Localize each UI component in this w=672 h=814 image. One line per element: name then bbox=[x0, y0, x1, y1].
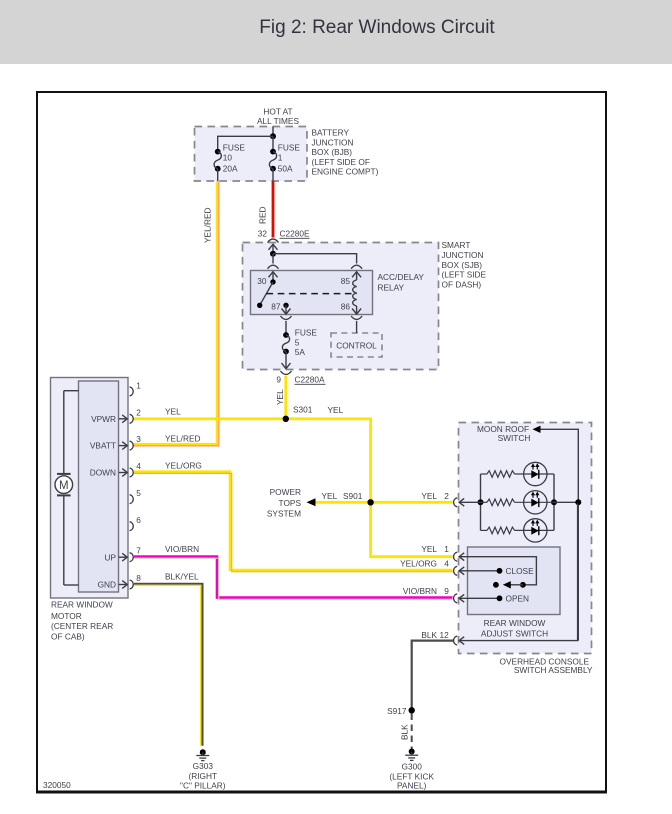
arrow into SJB at pin 32 bbox=[269, 244, 278, 254]
svg-text:YEL/RED: YEL/RED bbox=[165, 434, 201, 444]
splice S917 bbox=[387, 706, 415, 716]
svg-text:87: 87 bbox=[271, 301, 281, 311]
wire YEL/ORG from motor pin 4 to switch pin 4 (yellow with orange stripe) bbox=[134, 472, 453, 572]
wire fuse 5 to C2280A with arrow bbox=[282, 352, 291, 369]
svg-text:86: 86 bbox=[341, 301, 351, 311]
relay pin 85 connector arc bbox=[351, 265, 362, 269]
node HOT AT ALL TIMES bbox=[257, 107, 299, 127]
svg-text:ACC/DELAY: ACC/DELAY bbox=[378, 272, 425, 282]
svg-text:BLK: BLK bbox=[421, 630, 437, 640]
wire YEL from S301 to motor pin 2 bbox=[134, 417, 286, 420]
svg-text:BATTERY: BATTERY bbox=[312, 128, 350, 138]
adjust switch common blade bbox=[493, 581, 526, 588]
LED lamp bus (left) bbox=[478, 474, 484, 530]
svg-text:YEL: YEL bbox=[328, 405, 344, 415]
svg-text:HOT AT: HOT AT bbox=[263, 107, 292, 117]
splice S301 bbox=[283, 405, 313, 422]
svg-text:UP: UP bbox=[104, 552, 116, 562]
relay pin 30 arrow and switch blade bbox=[257, 272, 278, 308]
wire BLK/YEL from motor pin 8 to ground G303 (dark with yellow stripe) bbox=[134, 584, 203, 746]
fuse F10 (FUSE 10 20A) bbox=[214, 143, 245, 182]
svg-text:POWER: POWER bbox=[270, 487, 301, 497]
svg-text:CLOSE: CLOSE bbox=[506, 566, 535, 576]
svg-text:VBATT: VBATT bbox=[90, 441, 116, 451]
diagram frame bbox=[36, 92, 607, 792]
svg-text:SWITCH ASSEMBLY: SWITCH ASSEMBLY bbox=[514, 665, 593, 675]
svg-text:4: 4 bbox=[444, 558, 449, 568]
svg-text:CONTROL: CONTROL bbox=[336, 340, 377, 350]
relay pin 86 lower connector arc bbox=[351, 316, 362, 320]
LED D2 (middle row) bbox=[524, 491, 547, 514]
wire YEL from C2280A to splice S301 bbox=[284, 376, 287, 419]
svg-text:YEL: YEL bbox=[421, 491, 437, 501]
svg-text:G300: G300 bbox=[402, 761, 423, 771]
power tops system arrow (filled) bbox=[307, 498, 316, 506]
svg-text:BLK: BLK bbox=[400, 724, 410, 740]
svg-text:320050: 320050 bbox=[43, 780, 71, 790]
SJB label bbox=[442, 240, 487, 289]
battery junction box BJB (dashed box) bbox=[195, 127, 308, 182]
svg-text:C2280A: C2280A bbox=[295, 374, 325, 384]
svg-text:ALL TIMES: ALL TIMES bbox=[257, 116, 299, 126]
switch pin 2 connector arc and arrow bbox=[421, 491, 480, 507]
svg-text:RED: RED bbox=[258, 206, 268, 224]
wire label YEL/RED (vertical) bbox=[203, 207, 213, 243]
relay mechanical linkage (dashed) bbox=[267, 293, 357, 295]
motor pin 6 connector arc bbox=[130, 515, 142, 531]
svg-text:DOWN: DOWN bbox=[90, 468, 116, 478]
relay box U1 ACC/DELAY RELAY bbox=[251, 271, 425, 315]
svg-text:7: 7 bbox=[136, 546, 141, 556]
svg-text:OF DASH): OF DASH) bbox=[442, 280, 482, 290]
svg-text:1: 1 bbox=[136, 380, 141, 390]
svg-text:32: 32 bbox=[258, 228, 268, 238]
svg-text:9: 9 bbox=[444, 586, 449, 596]
svg-text:1: 1 bbox=[444, 544, 449, 554]
svg-text:TOPS: TOPS bbox=[279, 498, 302, 508]
svg-text:YEL: YEL bbox=[421, 544, 437, 554]
svg-text:RELAY: RELAY bbox=[378, 282, 405, 292]
svg-text:YEL/ORG: YEL/ORG bbox=[165, 460, 202, 470]
rear window adjust switch box bbox=[468, 547, 561, 615]
rear window motor box (inner connector) bbox=[79, 381, 119, 592]
svg-text:REAR WINDOW: REAR WINDOW bbox=[484, 618, 546, 628]
wire YEL/RED from fuse 10 to motor pin 3 (yellow with red stripe) bbox=[134, 181, 219, 446]
svg-text:5: 5 bbox=[136, 488, 141, 498]
svg-text:6: 6 bbox=[136, 515, 141, 525]
svg-text:REAR WINDOW: REAR WINDOW bbox=[51, 599, 113, 609]
svg-text:SWITCH: SWITCH bbox=[498, 433, 531, 443]
svg-text:VIO/BRN: VIO/BRN bbox=[165, 544, 199, 554]
svg-text:ENGINE COMPT): ENGINE COMPT) bbox=[312, 167, 379, 177]
power tops system label bbox=[267, 487, 302, 518]
adjust switch CLOSE contact bbox=[400, 558, 534, 576]
svg-text:MOTOR: MOTOR bbox=[51, 611, 82, 621]
motor pin 3 VBATT bbox=[90, 434, 201, 451]
svg-text:G303: G303 bbox=[193, 761, 214, 771]
svg-text:2: 2 bbox=[136, 407, 141, 417]
motor pin 7 UP bbox=[104, 544, 199, 562]
motor pin 4 DOWN bbox=[90, 460, 202, 477]
svg-text:YEL: YEL bbox=[165, 407, 181, 417]
splice S901 bbox=[343, 491, 374, 505]
svg-text:8: 8 bbox=[136, 573, 141, 583]
moon roof switch label bbox=[477, 424, 530, 443]
adjust switch caption bbox=[481, 618, 548, 638]
svg-text:(RIGHT: (RIGHT bbox=[189, 771, 218, 781]
wire label BLK (vertical) bbox=[400, 724, 410, 740]
svg-text:SMART: SMART bbox=[442, 240, 471, 250]
fuse F5 (FUSE 5 5A) bbox=[282, 328, 317, 357]
wire label YEL left of S901 bbox=[322, 491, 338, 501]
svg-text:JUNCTION: JUNCTION bbox=[442, 250, 484, 260]
LED D1 (top row) bbox=[524, 462, 547, 485]
header bar bbox=[0, 0, 672, 64]
svg-text:12: 12 bbox=[440, 630, 450, 640]
svg-text:YEL: YEL bbox=[322, 491, 338, 501]
motor pin 2 VPWR bbox=[91, 407, 181, 424]
ground G303 bbox=[180, 749, 226, 790]
wire feed into BJB from hot at all times bbox=[218, 127, 276, 152]
wire BLK from switch pin 12 to splice S917 bbox=[412, 641, 454, 711]
wire RED from fuse 1 to C2280E bbox=[272, 181, 275, 238]
wire coil to CONTROL box bbox=[356, 321, 358, 333]
svg-text:S917: S917 bbox=[387, 706, 407, 716]
svg-text:M: M bbox=[59, 480, 69, 492]
LED D3 (bottom row) bbox=[524, 519, 547, 542]
junction node in SJB bbox=[270, 251, 357, 264]
svg-text:30: 30 bbox=[257, 276, 267, 286]
svg-text:(LEFT SIDE OF: (LEFT SIDE OF bbox=[312, 157, 370, 167]
wire label YEL right of S301 bbox=[328, 405, 344, 415]
connector C2280E pin 32 bbox=[258, 228, 310, 242]
svg-text:OPEN: OPEN bbox=[506, 594, 530, 604]
svg-text:BLK/YEL: BLK/YEL bbox=[165, 571, 199, 581]
motor caption bbox=[51, 599, 113, 641]
wire label YEL (vertical, below C2280A) bbox=[275, 389, 285, 405]
svg-text:OF CAB): OF CAB) bbox=[51, 631, 85, 641]
motor pin 8 GND bbox=[98, 571, 199, 589]
wire label RED (vertical) bbox=[258, 206, 268, 224]
title bbox=[0, 17, 672, 39]
svg-text:20A: 20A bbox=[223, 163, 238, 173]
svg-text:(CENTER REAR: (CENTER REAR bbox=[51, 621, 113, 631]
wire YEL from S901 to power tops arrow bbox=[315, 501, 371, 504]
CONTROL box (dashed) bbox=[331, 333, 382, 357]
svg-text:85: 85 bbox=[341, 276, 351, 286]
wire BLK dashed from S917 to ground G300 bbox=[411, 714, 413, 750]
rear window motor box (outer) bbox=[51, 378, 129, 599]
switch pin 12 connector arc and ground return wire bbox=[421, 504, 577, 646]
svg-text:10: 10 bbox=[223, 152, 233, 162]
svg-text:JUNCTION: JUNCTION bbox=[312, 137, 354, 147]
relay pin 87 lower connector arc bbox=[281, 316, 292, 320]
svg-text:C2280E: C2280E bbox=[280, 228, 310, 238]
fuse F1 (FUSE 1 50A) bbox=[269, 143, 300, 182]
svg-text:3: 3 bbox=[136, 434, 141, 444]
svg-text:FUSE: FUSE bbox=[295, 328, 318, 338]
wire YEL from S901 to switch pin 1 bbox=[371, 502, 453, 556]
motor pin 1 connector arc bbox=[130, 380, 142, 396]
svg-text:9: 9 bbox=[276, 374, 281, 384]
switch pin 1 connector arc and arrow to common bbox=[421, 544, 536, 585]
svg-text:VPWR: VPWR bbox=[91, 414, 116, 424]
resistor R1 (top row) bbox=[481, 471, 555, 478]
wire pin 87 to fuse 5 bbox=[285, 321, 287, 335]
svg-text:ADJUST SWITCH: ADJUST SWITCH bbox=[481, 628, 548, 638]
wire YEL from S301 to S901 bbox=[286, 419, 371, 503]
relay pin 87 contact bbox=[271, 301, 290, 314]
svg-text:"C" PILLAR): "C" PILLAR) bbox=[180, 781, 226, 791]
connector C2280A pin 9 bbox=[276, 371, 325, 384]
motor M1 symbol bbox=[55, 391, 79, 585]
svg-text:4: 4 bbox=[136, 461, 141, 471]
wire VIO/BRN from motor pin 7 to switch pin 9 (magenta with brown stripe) bbox=[134, 557, 453, 600]
svg-text:SYSTEM: SYSTEM bbox=[267, 509, 301, 519]
LED lamp bus (right) bbox=[551, 474, 581, 530]
svg-text:FUSE: FUSE bbox=[278, 143, 301, 153]
ground G300 bbox=[389, 749, 434, 791]
resistor R2 (middle row) bbox=[481, 499, 555, 506]
smart junction box SJB (dashed box) bbox=[243, 243, 439, 370]
svg-text:5A: 5A bbox=[295, 347, 306, 357]
svg-text:S301: S301 bbox=[293, 405, 313, 415]
svg-text:YEL/ORG: YEL/ORG bbox=[400, 558, 437, 568]
adjust switch OPEN contact bbox=[403, 586, 529, 604]
overhead console caption bbox=[500, 656, 593, 675]
svg-text:PANEL): PANEL) bbox=[397, 781, 427, 791]
BJB label bbox=[312, 128, 379, 177]
relay coil 85-86 bbox=[341, 272, 361, 314]
overhead console switch assembly (dashed box) bbox=[459, 423, 592, 654]
svg-text:50A: 50A bbox=[278, 163, 293, 173]
svg-text:BOX (BJB): BOX (BJB) bbox=[312, 147, 353, 157]
resistor R3 (bottom row) bbox=[481, 527, 555, 534]
svg-text:BOX (SJB): BOX (SJB) bbox=[442, 260, 483, 270]
svg-text:YEL/RED: YEL/RED bbox=[203, 207, 213, 243]
svg-text:1: 1 bbox=[278, 152, 283, 162]
relay pin 30 connector arc bbox=[268, 265, 279, 269]
svg-text:VIO/BRN: VIO/BRN bbox=[403, 586, 437, 596]
wire YEL from S901 to switch pin 2 bbox=[371, 501, 453, 504]
svg-text:GND: GND bbox=[98, 580, 116, 590]
svg-text:S901: S901 bbox=[343, 491, 363, 501]
svg-text:FUSE: FUSE bbox=[223, 143, 246, 153]
svg-text:YEL: YEL bbox=[275, 389, 285, 405]
svg-text:2: 2 bbox=[444, 491, 449, 501]
motor pin 5 connector arc bbox=[130, 488, 142, 504]
moon roof switch feed arrow (filled) and wire bbox=[533, 426, 579, 641]
svg-text:(LEFT SIDE: (LEFT SIDE bbox=[442, 270, 487, 280]
